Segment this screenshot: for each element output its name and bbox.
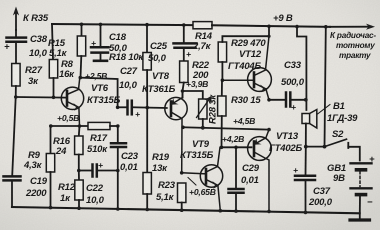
switch S2 [324,25,328,29]
svg-text:200,0: 200,0 [308,197,333,208]
svg-text:С27: С27 [120,66,138,77]
svg-text:5,1к: 5,1к [49,48,68,59]
svg-text:R17: R17 [90,133,108,144]
svg-text:С37: С37 [313,186,331,197]
svg-text:10,0: 10,0 [86,195,105,206]
svg-text:+3,9В: +3,9В [186,79,208,89]
svg-text:24: 24 [55,146,67,157]
wire [15,42,17,64]
node +3,9V label [186,79,208,89]
svg-text:0,01: 0,01 [120,162,138,173]
svg-text:С38: С38 [30,34,48,45]
svg-text:VТ6: VТ6 [91,83,109,94]
svg-text:R23: R23 [158,180,176,191]
node VT9 base junction [180,171,184,175]
svg-text:С29: С29 [242,163,260,174]
transistor VT9 [200,165,222,187]
svg-text:R27: R27 [25,65,43,76]
transistor VT8 [165,97,187,119]
resistor R22 [180,61,188,83]
wire speaker feed frame [295,25,299,29]
capacitor C37 [305,147,307,176]
node +0,65V label with leader [188,178,196,186]
node base VT6 junction [14,95,18,99]
node speaker bottom / supply junction [304,145,308,149]
resistor R23 [178,183,186,203]
capacitor C18 [99,23,103,27]
svg-text:R12: R12 [58,182,76,193]
transistor VT12 [248,68,272,92]
svg-text:16к: 16к [59,69,75,80]
resistor R8 [52,24,53,60]
node label K radiochastotnomu traktu [330,31,376,60]
svg-text:VТ13: VТ13 [276,131,299,142]
resistor R27 [12,64,20,87]
svg-text:КТ361Б: КТ361Б [142,84,176,95]
node +2,5V label [85,71,107,81]
svg-text:50,0: 50,0 [148,53,167,64]
node speaker/C33 junction [304,98,308,102]
svg-text:4,3к: 4,3к [23,160,43,171]
capacitor C23 [117,126,119,143]
resistor R12 [78,171,80,181]
svg-text:С23: С23 [121,151,139,162]
node C29 junction [234,146,238,150]
svg-text:+: + [135,109,140,119]
svg-text:5,1к: 5,1к [156,192,175,203]
resistor R19 [146,108,148,173]
node R28 emitter junction [181,89,185,93]
transistor VT6 [61,87,83,109]
wire base VT6 [16,96,66,99]
svg-text:ГТ402Б: ГТ402Б [269,143,302,154]
wire top +9V rail left part [52,24,193,25]
capacitor C33 [269,99,286,101]
resistor R30 [221,80,223,96]
capacitor C29 [235,147,237,188]
node VT6 collector junction [79,76,83,80]
node VT13 base junction [220,146,224,150]
node VT12 base junction [221,78,225,82]
value label R14 2,7k [192,31,213,52]
node output/+4,5V junction [267,128,271,132]
wire R9 top [51,125,80,127]
svg-text:+0,65В: +0,65В [189,187,216,197]
svg-text:13к: 13к [152,163,168,174]
svg-text:КТ315Б: КТ315Б [180,150,214,161]
node R16/R12/C22 junction [77,169,81,173]
svg-text:0,01: 0,01 [241,175,259,186]
capacitor C27 [118,106,127,108]
svg-text:510к: 510к [87,144,108,155]
svg-text:+: + [91,38,96,48]
capacitor C38 [15,30,17,37]
resistor R28 trimmer [183,91,203,99]
svg-text:10,0: 10,0 [119,80,138,91]
wire +4,5V feedback [181,126,185,130]
svg-text:10,0: 10,0 [29,48,48,59]
svg-text:+2,5В: +2,5В [85,71,107,81]
wire top +9V rail right part [212,25,330,27]
wire [11,180,13,207]
capacitor C19 [4,175,21,178]
node C27/R18 junction [116,106,120,110]
node R8 bottom junction [52,96,56,100]
wire VT12 collector to rail [267,25,271,29]
transistor VT13 [248,137,272,161]
node C22/C23 junction [116,169,120,173]
node R18/R19 base VT8 junction [145,106,149,110]
svg-text:S2: S2 [332,129,344,140]
svg-text:−: − [367,197,373,208]
svg-text:+9 В: +9 В [273,13,293,24]
resistor R18 [145,23,149,27]
battery GB1 [351,162,372,164]
resistor R17 [78,124,82,128]
svg-text:В1: В1 [333,101,345,112]
wire bottom ground rail [12,207,360,213]
svg-text:+: + [186,49,191,59]
svg-text:+0,5В: +0,5В [57,113,79,123]
resistor R14 [193,22,212,29]
wire [12,86,16,176]
wire arrow to RF section [330,26,371,28]
svg-text:+: + [4,42,10,53]
node +9V label [273,13,293,24]
svg-text:К радиочас-: К радиочас- [330,31,376,40]
capacitor C25 [182,23,186,27]
wire VT13 base [222,146,252,148]
svg-text:С22: С22 [86,183,104,194]
node +4,2V label [222,134,244,144]
resistor R9 [50,126,52,154]
svg-text:R19: R19 [152,152,170,163]
node +0,5V label [57,113,79,123]
resistor R15 [80,23,84,27]
svg-text:9В: 9В [333,173,345,184]
svg-text:С25: С25 [150,41,168,52]
svg-text:+: + [291,102,296,112]
svg-text:1ГД-39: 1ГД-39 [327,113,358,124]
svg-text:С18: С18 [109,32,127,43]
svg-text:+4,5В: +4,5В [233,116,255,126]
svg-text:тракту: тракту [339,51,371,60]
svg-text:R29 470: R29 470 [231,38,266,49]
svg-text:С19: С19 [30,176,48,187]
wire VT6 collector to C27 column [80,78,117,108]
resistor R29 [218,42,226,62]
svg-text:К R35: К R35 [23,13,49,24]
svg-text:R30 15: R30 15 [231,95,261,106]
ground chassis stub C18 [94,59,107,62]
svg-text:VТ8: VТ8 [152,71,170,82]
svg-text:+: + [369,154,375,165]
svg-text:R18 10к: R18 10к [109,52,144,63]
svg-text:2200: 2200 [25,188,47,199]
svg-text:3к: 3к [28,76,39,87]
svg-text:+: + [98,160,103,170]
svg-text:+: + [293,165,298,175]
svg-text:+4,2В: +4,2В [222,134,244,144]
resistor R16 [78,126,81,136]
svg-text:500,0: 500,0 [281,77,305,88]
wire arrow to R35 [15,11,17,30]
svg-text:VТ12: VТ12 [239,49,262,60]
svg-text:1к: 1к [60,193,71,204]
svg-text:тотному: тотному [336,41,375,50]
node R17/C23 junction [116,124,120,128]
svg-text:С33: С33 [284,60,302,71]
svg-text:ГТ404Б: ГТ404Б [228,61,261,72]
svg-text:КТ315Б: КТ315Б [87,95,121,106]
capacitor C22 [79,170,92,172]
svg-text:VТ9: VТ9 [192,139,210,150]
node C33 junction on output [267,98,271,102]
ground chassis symbol [359,213,361,219]
speaker B1 [302,114,310,124]
